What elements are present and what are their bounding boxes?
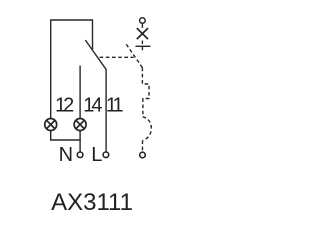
wire drop to terminal N <box>79 140 81 152</box>
mech terminal <box>140 152 146 158</box>
terminal L <box>103 152 109 158</box>
terminal N <box>77 152 83 158</box>
wire contact 12 drop <box>92 19 94 49</box>
mech dashed link below cross <box>141 41 143 54</box>
lamp E2 <box>74 119 86 131</box>
wire contact 14 to lamp E2 <box>79 66 81 119</box>
lamp E1 <box>45 119 57 131</box>
actuator circle (turn knob) <box>140 18 146 24</box>
wire lamp E2 bottom <box>79 130 81 140</box>
svg-text:N: N <box>59 144 73 166</box>
switch blade S1 <box>85 40 106 70</box>
mech detent arc <box>143 117 152 141</box>
actuator stem <box>141 23 143 28</box>
actuator latch bar <box>136 45 151 47</box>
wire neutral bus <box>50 139 81 141</box>
wire top horizontal <box>51 19 93 21</box>
mech dashed linkage with jogs <box>142 68 149 117</box>
mech dashed link to terminal <box>142 140 144 152</box>
svg-text:14: 14 <box>83 94 102 116</box>
mech dashed blade <box>126 44 142 67</box>
mech dashed link from switch blade <box>100 56 134 58</box>
actuator cross <box>137 28 148 39</box>
wire left from node 12 down to lamp E1 <box>50 19 52 118</box>
wire common 11 down to terminal L <box>105 70 107 152</box>
wire lamp E1 bottom <box>50 130 52 140</box>
svg-text:L: L <box>91 144 102 166</box>
svg-text:12: 12 <box>55 94 74 116</box>
svg-text:AX3111: AX3111 <box>51 189 133 216</box>
